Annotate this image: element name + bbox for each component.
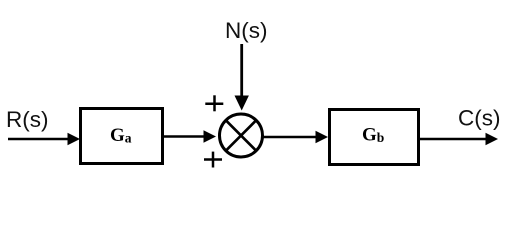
arrowhead into Gb: [316, 131, 329, 143]
arrowhead into summing junction: [204, 130, 217, 142]
svg-text:C(s): C(s): [458, 106, 500, 131]
arrowhead output: [486, 133, 499, 145]
arrowhead down into summing junction: [235, 96, 249, 111]
wire Ga to summing junction: [162, 135, 205, 138]
block Gb: [330, 110, 419, 165]
arrowhead into Ga: [68, 133, 81, 145]
sign + lower input: [204, 158, 222, 161]
svg-text:N(s): N(s): [225, 18, 267, 43]
summing junction U1 circle: [220, 114, 263, 157]
wire R(s) to Ga: [8, 138, 69, 141]
wire Gb to C(s) output: [419, 138, 487, 141]
wire N(s) down to summing junction: [240, 44, 243, 97]
sign + upper input: [205, 102, 223, 105]
summing junction X diagonal 2: [227, 121, 256, 150]
summing junction X diagonal 1: [227, 121, 256, 150]
wire summing junction to Gb: [263, 136, 318, 139]
svg-text:R(s): R(s): [6, 107, 48, 132]
block Ga: [81, 109, 163, 164]
